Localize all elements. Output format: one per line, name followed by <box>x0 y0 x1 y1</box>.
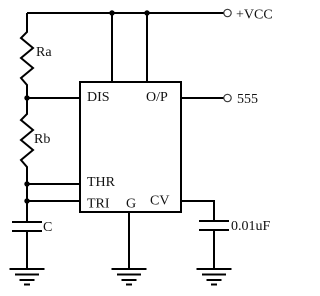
svg-text:TRI: TRI <box>87 197 110 212</box>
svg-text:Rb: Rb <box>34 132 50 147</box>
svg-text:DIS: DIS <box>87 90 110 105</box>
svg-text:O/P: O/P <box>146 90 168 105</box>
svg-text:Ra: Ra <box>36 45 52 60</box>
svg-text:CV: CV <box>150 194 169 209</box>
svg-text:C: C <box>43 220 52 235</box>
svg-text:0.01uF: 0.01uF <box>231 219 271 234</box>
svg-text:555: 555 <box>237 92 258 107</box>
svg-text:THR: THR <box>87 175 116 190</box>
svg-text:G: G <box>126 197 136 212</box>
svg-text:+VCC: +VCC <box>236 8 273 23</box>
